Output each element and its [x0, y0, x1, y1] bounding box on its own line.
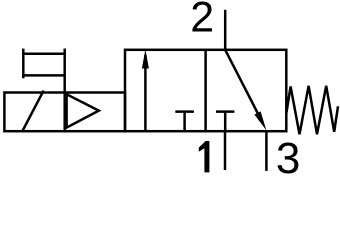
return spring — [286, 86, 338, 135]
actuator box (solenoid + pilot) — [4, 93, 125, 132]
actuator divider / flag right vertical — [63, 49, 66, 132]
port label 1 — [199, 141, 210, 172]
svg-text:2: 2 — [190, 0, 214, 42]
coil winding symbol top horizontal — [22, 52, 64, 55]
port 3 line — [265, 131, 268, 171]
blocked port T (left square) — [175, 112, 194, 132]
port 1 line — [224, 131, 227, 170]
coil winding symbol lower horizontal — [22, 74, 64, 77]
blocked port T (right square) — [216, 112, 234, 132]
exhaust path 2->3 diagonal — [225, 50, 263, 124]
coil winding symbol left vertical — [22, 49, 25, 79]
flow path arrowhead — [142, 49, 149, 68]
pilot triangle — [67, 94, 99, 127]
flow path arrow 1->2 (left square) shaft — [144, 55, 147, 131]
solenoid coil diagonal — [23, 91, 44, 131]
exhaust path arrowhead — [254, 111, 266, 130]
port 2 line — [224, 10, 227, 50]
position divider — [204, 50, 207, 131]
valve body (2-position envelope) — [125, 50, 286, 131]
svg-text:3: 3 — [276, 134, 300, 175]
